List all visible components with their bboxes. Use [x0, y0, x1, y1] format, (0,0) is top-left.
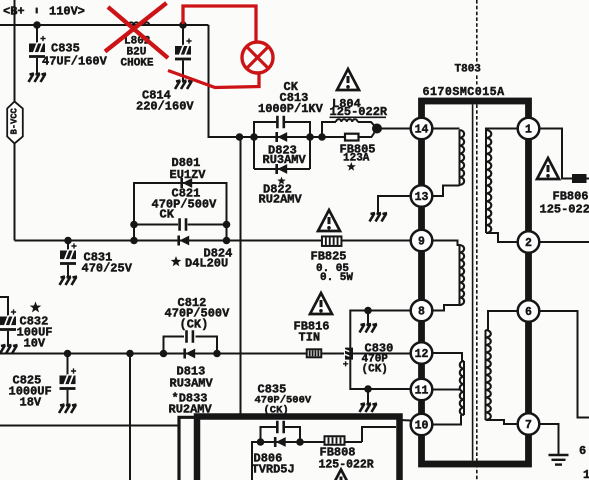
svg-text:10V: 10V: [24, 337, 46, 351]
label C825: [9, 374, 52, 410]
ground pin8 tie: [360, 324, 378, 333]
label C830: [362, 342, 394, 376]
svg-text:TIN: TIN: [299, 331, 321, 345]
svg-text:123A: 123A: [343, 153, 370, 165]
wire B-VCC vertical: [14, 0, 16, 241]
inductor L804 125-022R: [322, 119, 377, 137]
label D801: [170, 156, 207, 182]
svg-text:47UF/160V: 47UF/160V: [42, 55, 108, 69]
label C835: [42, 42, 108, 69]
label FB825 0.05 0.5W: [311, 250, 354, 285]
capacitor C821 470P/500V: [180, 218, 186, 231]
diode D824 D4L20U: [177, 236, 189, 246]
node junction C812 right: [213, 350, 221, 358]
svg-text:EU1ZV: EU1ZV: [170, 168, 207, 182]
label D813 D833: [169, 365, 214, 417]
node junction rail1 box left: [130, 237, 138, 245]
svg-text:(CK): (CK): [264, 405, 289, 417]
pin 13: [411, 185, 433, 207]
warning triangle right: [537, 158, 559, 179]
node junction box right: [306, 133, 314, 141]
label C835 bottom: [255, 383, 312, 417]
svg-text:C835: C835: [51, 42, 80, 56]
red wire loop: [183, 6, 256, 43]
svg-text:14: 14: [415, 123, 429, 136]
label FB808: [319, 446, 374, 472]
capacitor C830 470P: [343, 348, 353, 367]
label D806: [252, 452, 295, 477]
node B+ 110V input label: [3, 5, 85, 19]
ferrite bead FB825: [322, 236, 342, 246]
label C831: [82, 251, 133, 276]
label FB806 125-022: [540, 190, 589, 217]
label C832: [17, 302, 53, 351]
svg-text:FB806: FB806: [553, 190, 589, 204]
svg-text:(CK): (CK): [180, 318, 209, 332]
ground C825: [59, 405, 77, 414]
ground C835: [29, 74, 47, 83]
transformer T803 outline: [422, 101, 529, 464]
wire pin8 to vertical tie: [350, 311, 410, 390]
label FB805: [340, 143, 376, 171]
node B-VCC flag: [7, 102, 23, 144]
svg-text:TVRD5J: TVRD5J: [252, 463, 295, 477]
node junction box left: [250, 133, 258, 141]
svg-text:FB825: FB825: [311, 250, 347, 264]
capacitor C831 470/25V: [60, 241, 77, 278]
pin 8: [411, 300, 433, 322]
svg-text:6170SMC015A: 6170SMC015A: [423, 85, 506, 99]
warning triangle near C813: [337, 69, 359, 90]
svg-text:220/160V: 220/160V: [136, 100, 194, 114]
ferrite bead FB816 TIN: [307, 349, 322, 357]
node junction pin8 gnd: [364, 307, 372, 324]
svg-text:125-022: 125-022: [540, 203, 589, 217]
wire C813 parallel box: [254, 122, 310, 169]
pin 7: [518, 413, 540, 435]
ground pin13: [370, 213, 388, 222]
svg-text:12: 12: [415, 348, 429, 361]
capacitor C835 47UF/160V: [29, 25, 46, 74]
node junction C812 left: [160, 350, 168, 358]
svg-text:RU2AMV: RU2AMV: [259, 193, 303, 207]
node junction at C814: [179, 21, 187, 29]
wire main rail B+ out: [15, 240, 411, 242]
diode D823 RU3AMV: [275, 132, 287, 142]
label L804: [330, 97, 388, 119]
capacitor C814 220/160V: [175, 25, 192, 81]
ground C831: [60, 277, 78, 286]
pin 2: [518, 231, 540, 253]
pin 1: [518, 118, 540, 140]
transformer T803 core solid line: [472, 105, 474, 461]
svg-text:6: 6: [579, 444, 586, 458]
wire pin7 to earth: [540, 424, 559, 455]
inductor L802 B2U CHOKE: [129, 22, 150, 25]
svg-text:7: 7: [525, 419, 532, 432]
wire vertical from B+ rail down: [209, 25, 240, 137]
wire bottom horizontal: [0, 425, 178, 427]
node junction C821 right: [223, 221, 231, 229]
wire D801 parallel box: [134, 183, 227, 241]
ground pin11 tie: [360, 404, 378, 413]
node junction rail1 box right: [223, 237, 231, 245]
svg-text:RU3AMV: RU3AMV: [170, 377, 214, 391]
svg-text:1: 1: [583, 468, 589, 480]
pin 11: [411, 379, 433, 401]
svg-text:CHOKE: CHOKE: [121, 58, 154, 70]
block boundary main: [197, 417, 400, 480]
svg-text:CK: CK: [160, 208, 175, 222]
node junction pin11 gnd: [364, 385, 372, 403]
wire pin2 out: [540, 241, 589, 243]
label D824: [171, 247, 233, 271]
svg-text:9: 9: [418, 235, 425, 248]
pin 12: [411, 342, 433, 364]
label C812: [165, 296, 231, 332]
pin 6: [518, 300, 540, 322]
svg-text:6: 6: [525, 306, 532, 319]
red cross over L802: [105, 3, 168, 58]
node junction C821 left: [130, 221, 138, 229]
svg-text:T803: T803: [455, 64, 482, 76]
ferrite bead FB808: [325, 436, 345, 445]
wire pin6 out: [540, 311, 589, 418]
node junction vertical drop: [236, 133, 244, 141]
label T803: [451, 63, 485, 76]
svg-text:18V: 18V: [20, 396, 42, 410]
svg-text:FB808: FB808: [320, 446, 356, 460]
ferrite bead FB805 123A: [345, 129, 377, 141]
label L802: [121, 36, 154, 70]
warning triangle bottom: [330, 470, 352, 480]
svg-text:8: 8: [418, 305, 425, 318]
warning triangle above FB825: [318, 210, 340, 231]
svg-text:2: 2: [525, 237, 532, 250]
label 6170SMC015A: [420, 85, 510, 100]
pin 9: [411, 230, 433, 252]
svg-text:B-VCC: B-VCC: [10, 107, 20, 134]
label D822: [259, 177, 303, 207]
svg-text:RU3AMV: RU3AMV: [263, 153, 307, 167]
wire C812 bracket: [164, 337, 218, 354]
transformer T803 core dashed line: [476, 0, 478, 480]
pin 14: [411, 118, 433, 140]
label partial right edge: [579, 444, 589, 480]
red wire loop bottom: [168, 71, 259, 88]
svg-text:13: 13: [415, 191, 429, 204]
svg-text:470/25V: 470/25V: [82, 262, 133, 276]
winding primary 12-11-10: [432, 353, 464, 425]
ferrite bead FB806: [572, 174, 589, 183]
svg-text:110V>: 110V>: [49, 5, 85, 19]
node junction L804 split: [318, 133, 326, 141]
capacitor C835 470P/500V (bottom): [261, 421, 301, 442]
diode D801 EU1ZV: [180, 178, 192, 188]
svg-text:11: 11: [415, 384, 429, 397]
diode D813 RU3AMV: [183, 349, 195, 359]
ground earth pin7: [549, 455, 569, 465]
wire long vertical to bottom block: [240, 137, 242, 415]
wire pin1 to FB: [540, 129, 573, 179]
wire rail2 drop to bottom: [129, 354, 131, 480]
node junction cap right: [296, 438, 304, 446]
label C821: [152, 187, 218, 222]
svg-text:1000P/1KV: 1000P/1KV: [258, 102, 324, 116]
svg-text:D4L20U: D4L20U: [185, 257, 228, 271]
capacitor C832 100UF/10V: [0, 297, 16, 346]
label FB816: [294, 320, 330, 345]
block boundary inner: [179, 417, 197, 480]
svg-text:125-022R: 125-022R: [319, 459, 374, 472]
wire B+ top rail: [0, 24, 209, 26]
diode D806 TVRD5J: [274, 437, 286, 447]
capacitor C812 470P/500V: [187, 330, 193, 343]
label D823: [263, 144, 307, 168]
wire pin13 to ground: [378, 196, 411, 213]
capacitor C825 1000UF/18V: [60, 354, 77, 406]
wire pin10 stub: [400, 419, 412, 422]
winding secondary 6-7: [486, 311, 519, 424]
node junction cap left: [257, 438, 265, 446]
winding primary 9-8: [432, 241, 464, 311]
svg-text:1: 1: [525, 123, 532, 136]
node junction to pin 14: [372, 124, 411, 134]
label C814: [136, 89, 194, 114]
winding secondary 1-2: [486, 129, 518, 243]
svg-text:10: 10: [415, 419, 429, 432]
wire FB808 to wall: [362, 427, 396, 442]
wire main rail 2: [0, 353, 411, 355]
diode D822 RU2AMV: [275, 164, 287, 174]
node junction rail2 C825: [64, 350, 72, 358]
wire D806 branch: [252, 442, 362, 480]
pin 10: [411, 414, 433, 436]
node junction rail2 drop: [126, 350, 134, 358]
label C813: [258, 80, 324, 116]
winding primary 14-13: [432, 129, 464, 197]
ground C832: [0, 345, 18, 354]
node junction rail1 C831: [64, 237, 72, 245]
wire secondary B+ branch to transformer: [240, 136, 373, 138]
svg-text:0. 5W: 0. 5W: [320, 272, 353, 284]
svg-text:(CK): (CK): [362, 364, 388, 376]
capacitor C813 1000P/1KV: [277, 116, 283, 129]
red lamp symbol: [242, 42, 273, 73]
warning triangle above FB816: [310, 293, 332, 314]
ground C814: [175, 81, 193, 90]
node junction top-left: [33, 21, 41, 29]
